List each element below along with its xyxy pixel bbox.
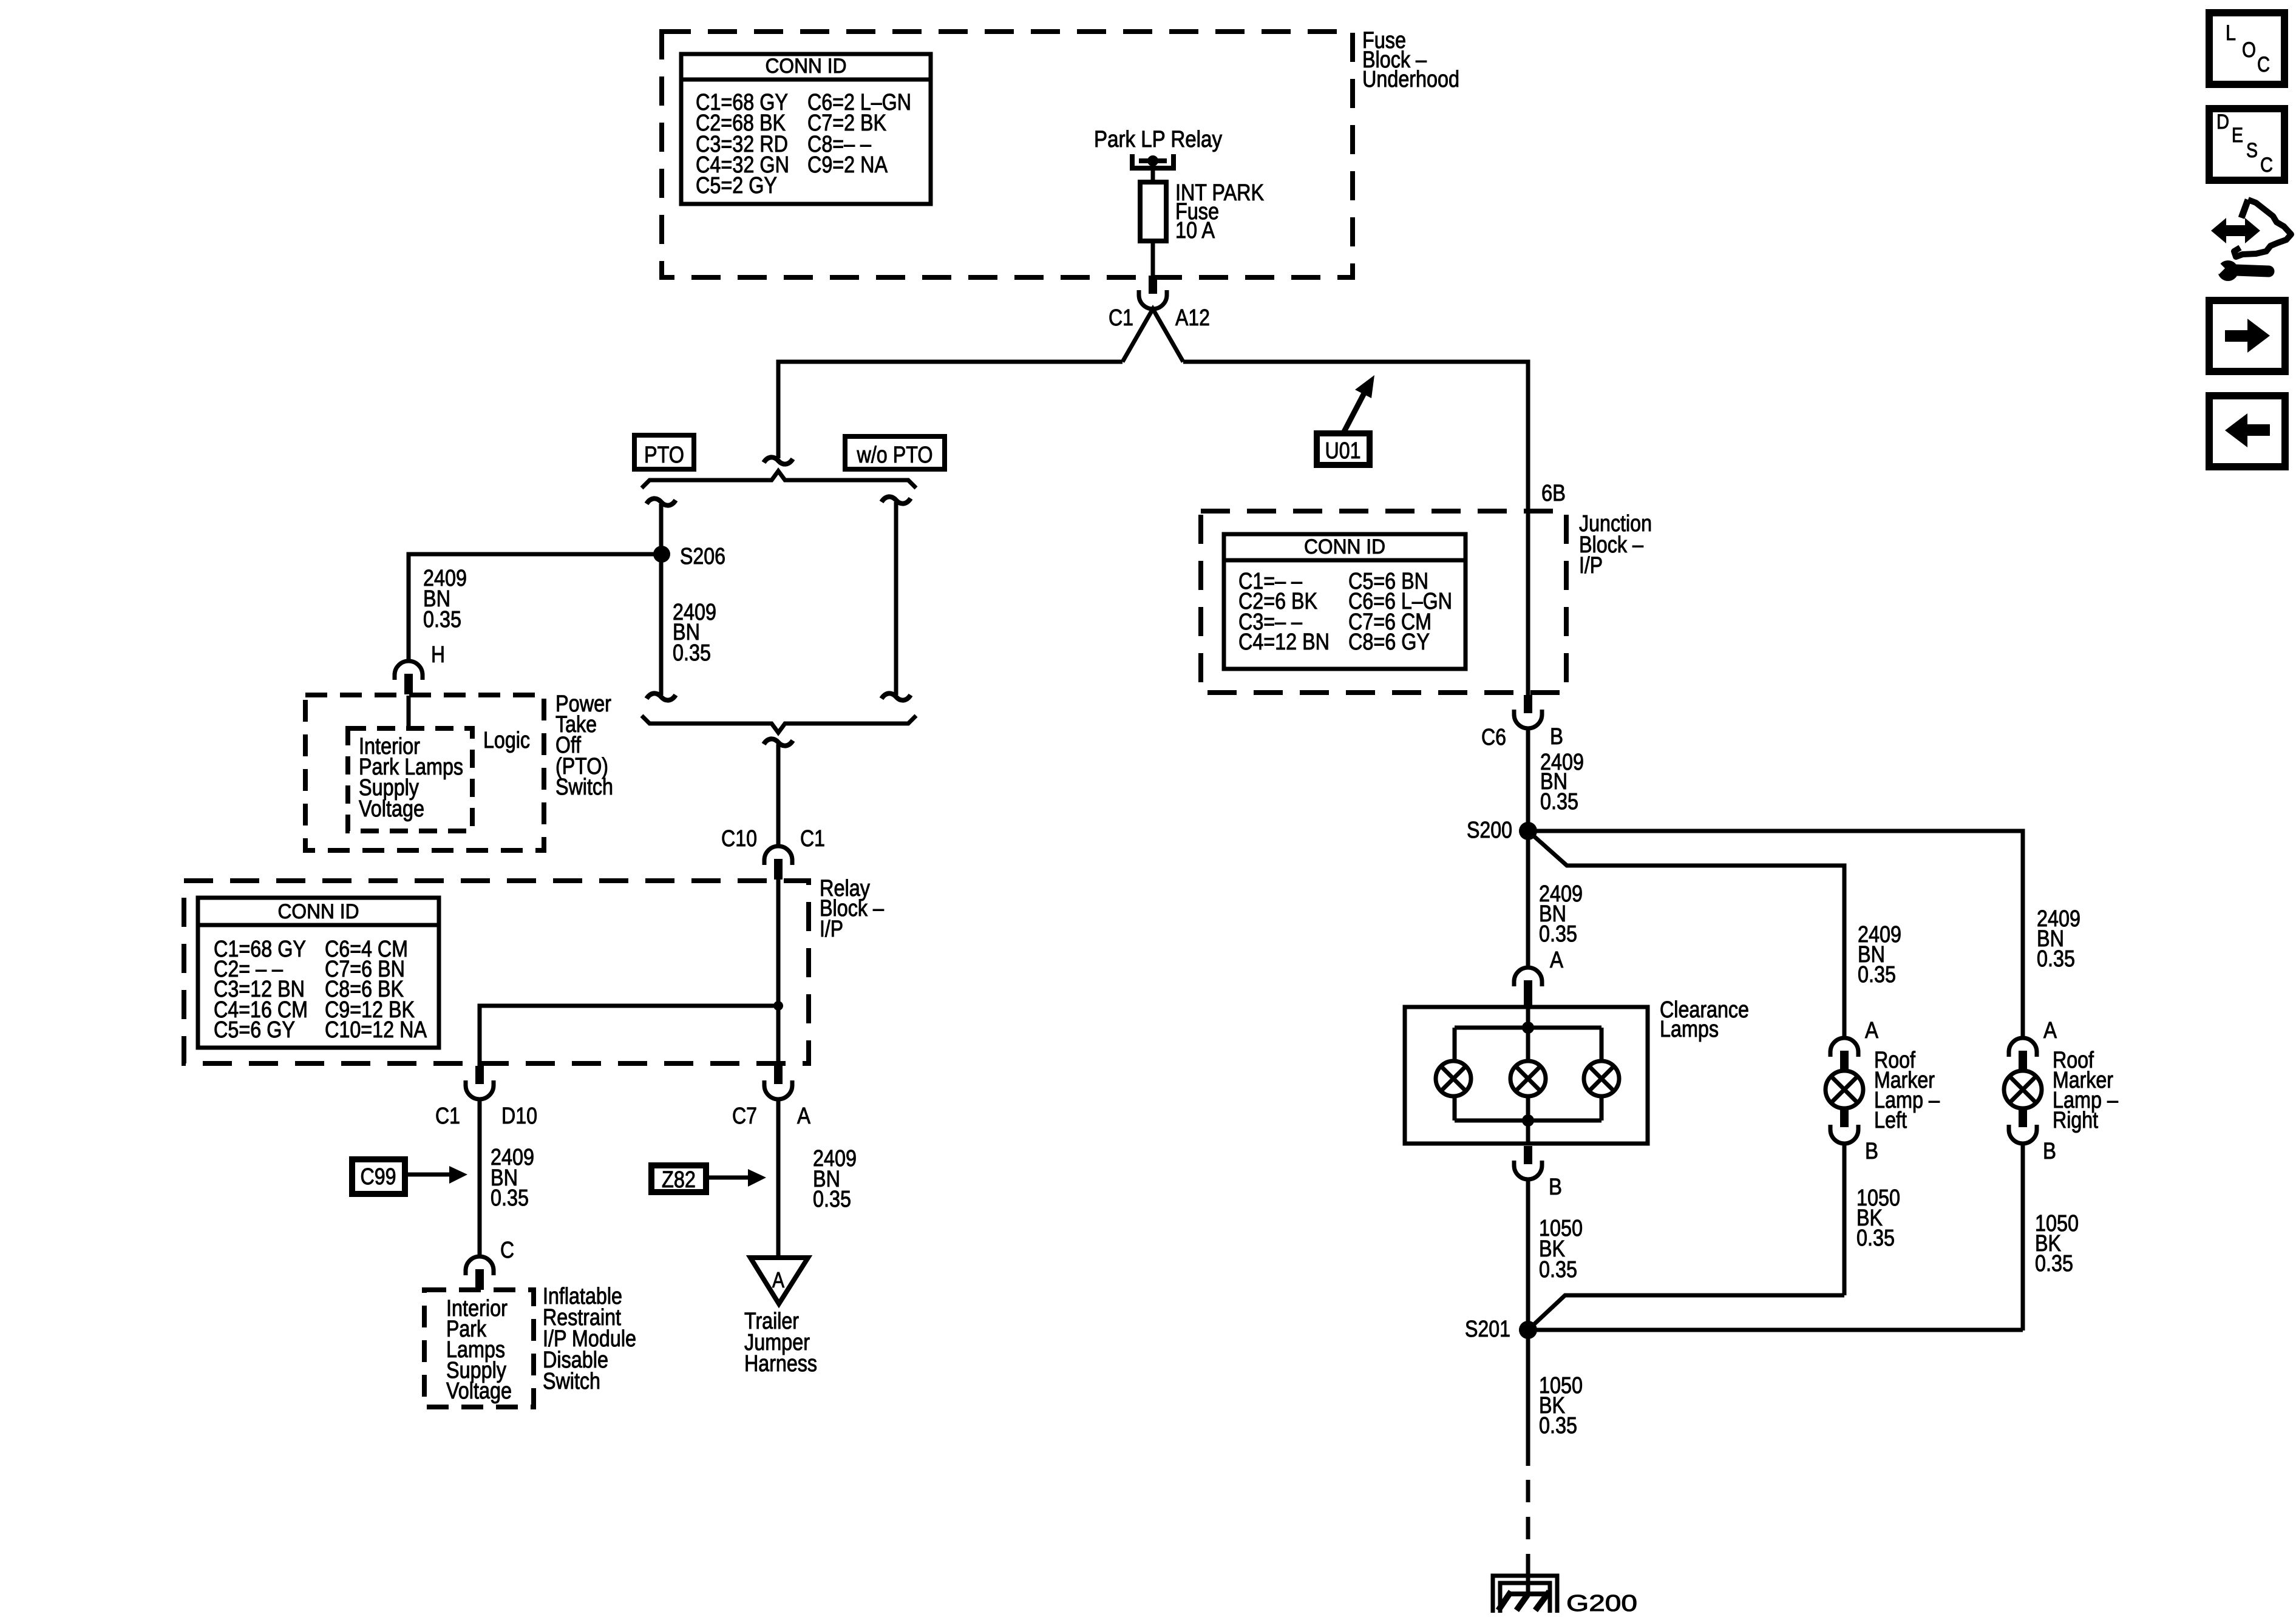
PTO switch dashed box bbox=[305, 695, 544, 850]
roof marker lamp left bulb bbox=[1826, 1071, 1863, 1108]
connector C10/C1 at relay block bbox=[764, 846, 792, 880]
sidebar adjust/hand icon with double arrow and wrench bbox=[2211, 200, 2291, 281]
arrow U01 to wire bbox=[1343, 375, 1374, 433]
connector A at roof marker left bbox=[1830, 1038, 1858, 1071]
takeout box U01 bbox=[1317, 433, 1370, 465]
fuse block underhood dashed enclosure bbox=[662, 32, 1353, 277]
svg-text:S201: S201 bbox=[1465, 1317, 1510, 1342]
svg-text:E: E bbox=[2232, 124, 2243, 147]
wire split below C1/A12 bbox=[1123, 309, 1183, 362]
svg-text:I/P: I/P bbox=[820, 917, 843, 942]
clearance lamps box bbox=[1405, 1007, 1648, 1144]
arrow Z82 to wire bbox=[706, 1169, 766, 1187]
svg-text:0.35: 0.35 bbox=[423, 607, 461, 632]
right option bracket (w/o PTO path) bbox=[894, 502, 898, 695]
wire break at option split bbox=[764, 457, 793, 464]
svg-text:C10=12 NA: C10=12 NA bbox=[325, 1017, 427, 1043]
ground symbol G200 bbox=[1493, 1576, 1557, 1613]
top option brace bbox=[642, 471, 916, 488]
wire into ground symbol bbox=[1526, 1561, 1530, 1595]
wire clearance B to S201 bbox=[1526, 1179, 1530, 1330]
connector A at clearance lamps bbox=[1514, 968, 1542, 1007]
wire S201 to roof marker left return bbox=[1528, 1295, 1844, 1330]
svg-text:0.35: 0.35 bbox=[1539, 1257, 1577, 1283]
svg-text:C9=2 NA: C9=2 NA bbox=[807, 152, 888, 178]
svg-text:C: C bbox=[2257, 53, 2270, 76]
svg-text:S200: S200 bbox=[1467, 818, 1512, 843]
wire S201 to roof marker right return bbox=[1528, 1328, 2023, 1332]
wire S200 to clearance lamps bbox=[1526, 831, 1530, 968]
svg-text:Park LP Relay: Park LP Relay bbox=[1094, 127, 1222, 152]
svg-text:w/o PTO: w/o PTO bbox=[857, 442, 933, 468]
wire S206 to PTO switch bbox=[409, 554, 662, 661]
svg-text:L: L bbox=[2226, 21, 2236, 45]
svg-text:B: B bbox=[1550, 724, 1563, 750]
relay Park LP Relay contact symbol bbox=[1132, 154, 1173, 168]
takeout box C99 bbox=[352, 1159, 405, 1194]
roof marker left cup connector B bbox=[1830, 1125, 1858, 1144]
svg-text:A: A bbox=[797, 1103, 811, 1129]
svg-text:Voltage: Voltage bbox=[359, 796, 424, 822]
clearance lamp center bbox=[1510, 1061, 1546, 1096]
svg-text:U01: U01 bbox=[1325, 438, 1361, 464]
svg-text:PTO: PTO bbox=[644, 442, 684, 468]
svg-text:C10: C10 bbox=[721, 826, 757, 852]
svg-text:C5=6 GY: C5=6 GY bbox=[214, 1017, 295, 1043]
connector B at clearance lamps bbox=[1514, 1146, 1542, 1179]
connector C1/D10 at relay block bbox=[466, 1066, 494, 1099]
sidebar DESC button bbox=[2209, 109, 2284, 180]
svg-text:Right: Right bbox=[2053, 1108, 2098, 1133]
arrow C99 to wire bbox=[405, 1166, 467, 1184]
svg-text:0.35: 0.35 bbox=[1540, 789, 1578, 815]
svg-text:0.35: 0.35 bbox=[673, 640, 711, 666]
clearance lamp right bbox=[1584, 1061, 1619, 1096]
svg-text:0.35: 0.35 bbox=[491, 1185, 529, 1211]
fuse INT PARK 10 A bbox=[1140, 182, 1166, 241]
svg-text:C5=2 GY: C5=2 GY bbox=[696, 173, 777, 198]
connector C at interior park lamps switch bbox=[466, 1256, 494, 1290]
wire option merge to connector C10/C1 bbox=[776, 744, 781, 846]
takeout box Z82 bbox=[651, 1165, 706, 1192]
trailer jumper harness triangle A bbox=[750, 1258, 808, 1304]
svg-text:10 A: 10 A bbox=[1175, 218, 1215, 243]
svg-text:C1: C1 bbox=[800, 826, 825, 852]
wire C1/D10 to interior park lamps switch bbox=[478, 1099, 482, 1256]
wire break below option merge bbox=[764, 739, 793, 745]
splice S206 bbox=[653, 546, 670, 563]
wire roof marker left to S201 rail bbox=[1843, 1144, 1847, 1295]
splice S200 bbox=[1519, 822, 1537, 840]
svg-text:CONN ID: CONN ID bbox=[766, 55, 847, 78]
wire relay to fuse bbox=[1151, 161, 1155, 184]
option box w/o PTO bbox=[845, 436, 945, 469]
roof marker lamp right bulb bbox=[2004, 1071, 2042, 1108]
junction inside relay block bbox=[773, 1001, 783, 1011]
svg-text:S: S bbox=[2246, 139, 2258, 162]
svg-text:C4=12 BN: C4=12 BN bbox=[1238, 629, 1330, 655]
clearance lamps internal wiring bbox=[1455, 1008, 1601, 1144]
wire C6/B to S200 bbox=[1526, 728, 1530, 831]
sidebar next-page arrow button bbox=[2209, 300, 2285, 371]
svg-text:C: C bbox=[2260, 154, 2273, 177]
CONN ID table (fuse block) bbox=[681, 54, 931, 204]
wire to junction block branch bbox=[1183, 362, 1528, 695]
svg-text:C6: C6 bbox=[1481, 725, 1506, 750]
wire fuse to connector C1/A12 bbox=[1151, 242, 1155, 277]
svg-text:C1: C1 bbox=[1109, 305, 1133, 331]
CONN ID table (relay block) bbox=[198, 898, 439, 1048]
left bracket top squiggle bbox=[647, 498, 676, 505]
svg-text:0.35: 0.35 bbox=[1858, 962, 1896, 988]
bottom option brace bbox=[642, 716, 916, 733]
wire branch to C1/D10 bbox=[480, 1006, 778, 1066]
right bracket bottom squiggle bbox=[881, 693, 911, 700]
junction block dashed enclosure bbox=[1201, 511, 1566, 693]
svg-text:A: A bbox=[1865, 1018, 1879, 1043]
svg-text:0.35: 0.35 bbox=[1856, 1225, 1895, 1251]
svg-text:Lamps: Lamps bbox=[1660, 1017, 1719, 1042]
sidebar previous-page arrow button bbox=[2209, 396, 2285, 467]
wire C7/A to trailer jumper harness bbox=[776, 1099, 781, 1258]
svg-text:Logic: Logic bbox=[483, 728, 530, 753]
CONN ID table (junction block) bbox=[1224, 534, 1466, 669]
svg-text:0.35: 0.35 bbox=[1539, 1413, 1577, 1439]
wire S201 to ground solid bbox=[1526, 1330, 1530, 1466]
svg-text:S206: S206 bbox=[680, 544, 725, 569]
connector C7/A at relay block bbox=[764, 1066, 792, 1099]
logic dashed box (interior park lamps supply voltage) bbox=[348, 728, 472, 831]
svg-text:C1: C1 bbox=[435, 1103, 460, 1129]
svg-text:A12: A12 bbox=[1175, 305, 1210, 331]
connector C1/A12 at fuse block bbox=[1139, 276, 1167, 309]
svg-text:C7: C7 bbox=[732, 1103, 757, 1129]
relay block dashed enclosure bbox=[184, 881, 809, 1063]
svg-text:Harness: Harness bbox=[744, 1351, 817, 1377]
interior park lamps dashed box bbox=[424, 1290, 534, 1407]
svg-text:D10: D10 bbox=[501, 1103, 537, 1129]
wire S200 to roof marker right bbox=[1528, 831, 2023, 1038]
svg-text:0.35: 0.35 bbox=[1539, 921, 1577, 947]
right bracket top squiggle bbox=[881, 497, 911, 503]
left option bracket (PTO path) bbox=[659, 504, 664, 695]
connector A at roof marker right bbox=[2009, 1038, 2037, 1071]
svg-text:Voltage: Voltage bbox=[446, 1378, 512, 1404]
svg-text:Switch: Switch bbox=[543, 1369, 600, 1394]
svg-text:Left: Left bbox=[1874, 1108, 1907, 1133]
wire to PTO option branch bbox=[778, 362, 1123, 458]
wire S201 to ground dashed bbox=[1526, 1480, 1530, 1561]
svg-text:Switch: Switch bbox=[555, 775, 613, 800]
svg-text:B: B bbox=[1865, 1139, 1878, 1164]
connector C6/B at junction block bbox=[1514, 695, 1542, 728]
svg-text:O: O bbox=[2242, 38, 2256, 62]
svg-text:CONN ID: CONN ID bbox=[278, 900, 359, 923]
svg-text:CONN ID: CONN ID bbox=[1304, 535, 1385, 558]
svg-text:0.35: 0.35 bbox=[2035, 1251, 2073, 1276]
connector H at PTO switch bbox=[395, 661, 423, 694]
splice S201 bbox=[1519, 1321, 1537, 1339]
svg-text:G200: G200 bbox=[1566, 1591, 1637, 1616]
clearance lamp left bbox=[1436, 1061, 1471, 1096]
roof marker right lower pin bbox=[2019, 1107, 2027, 1127]
svg-text:6B: 6B bbox=[1541, 481, 1566, 506]
svg-text:Underhood: Underhood bbox=[1362, 67, 1459, 92]
roof marker left lower pin bbox=[1840, 1107, 1849, 1127]
svg-text:C8=6 GY: C8=6 GY bbox=[1348, 629, 1430, 655]
junction top rail bbox=[1522, 1022, 1534, 1034]
left bracket bottom squiggle bbox=[647, 693, 676, 700]
svg-text:C: C bbox=[500, 1238, 514, 1263]
junction bottom rail bbox=[1522, 1114, 1534, 1127]
wire inside PTO switch bbox=[407, 696, 411, 730]
wire through relay block bbox=[776, 879, 781, 1066]
svg-text:I/P: I/P bbox=[1579, 553, 1603, 578]
option box PTO bbox=[634, 435, 694, 469]
svg-text:H: H bbox=[431, 642, 445, 668]
svg-text:B: B bbox=[1549, 1175, 1562, 1200]
sidebar LOC button bbox=[2209, 13, 2284, 84]
svg-text:D: D bbox=[2216, 110, 2229, 134]
roof marker right cup connector B bbox=[2009, 1125, 2037, 1144]
svg-text:0.35: 0.35 bbox=[2037, 946, 2075, 972]
wire S200 to roof marker left bbox=[1528, 831, 1844, 1038]
svg-text:Z82: Z82 bbox=[662, 1167, 696, 1193]
svg-text:A: A bbox=[1550, 947, 1564, 973]
svg-text:B: B bbox=[2043, 1139, 2056, 1164]
svg-text:A: A bbox=[772, 1267, 784, 1292]
svg-text:0.35: 0.35 bbox=[813, 1187, 851, 1212]
svg-text:C99: C99 bbox=[361, 1164, 396, 1190]
wire roof marker right to S201 rail bbox=[2021, 1144, 2025, 1331]
svg-text:A: A bbox=[2043, 1018, 2057, 1043]
